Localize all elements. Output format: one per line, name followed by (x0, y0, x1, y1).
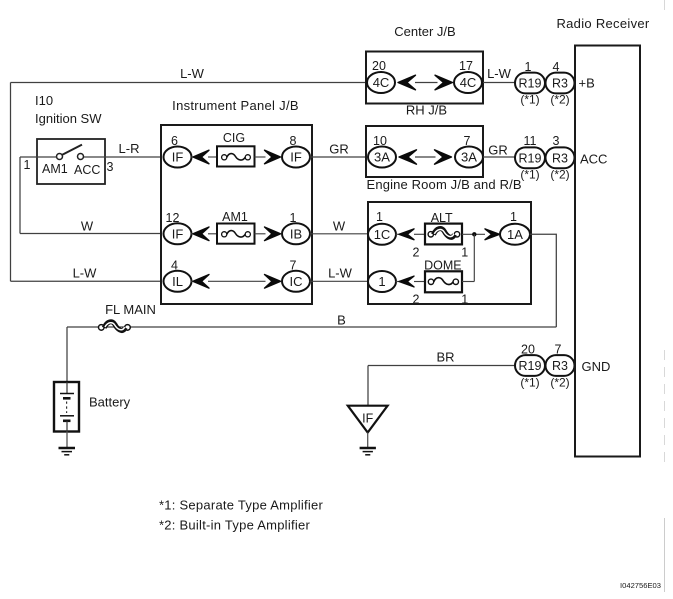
ground amplifier IF triangle (348, 406, 388, 433)
wire (414, 281, 425, 283)
junction node (472, 232, 476, 236)
svg-text:ACC: ACC (74, 163, 100, 177)
svg-text:IF: IF (172, 227, 184, 242)
wire W from IB to 1C (310, 233, 369, 235)
connector R3 +B (546, 73, 575, 94)
wire DOME to junction vertical (473, 234, 475, 281)
wire left vertical L-W (10, 83, 12, 282)
connector R3 GND (546, 355, 575, 376)
fuse AM1 (217, 224, 255, 244)
wire (255, 233, 266, 235)
connector R19 +B (515, 73, 545, 94)
svg-text:3: 3 (553, 134, 560, 148)
connector R3 ACC (546, 147, 575, 168)
svg-text:AM1: AM1 (222, 210, 248, 224)
svg-text:Instrument Panel J/B: Instrument Panel J/B (172, 98, 299, 113)
svg-text:1C: 1C (374, 227, 391, 242)
Center J/B box (366, 52, 483, 104)
wire (396, 281, 401, 283)
svg-text:W: W (333, 219, 346, 234)
wire (255, 156, 266, 158)
wire GR from IF8 to engine room box (310, 156, 367, 158)
ground battery (59, 448, 76, 455)
svg-text:1: 1 (378, 274, 385, 289)
connector IF (pin 12) (164, 223, 192, 244)
svg-text:I10: I10 (35, 93, 53, 108)
svg-text:2: 2 (413, 246, 420, 260)
svg-text:IL: IL (172, 274, 183, 289)
connector 3A left (368, 147, 396, 168)
wire (208, 280, 266, 282)
Radio Receiver box (575, 46, 640, 457)
arrow right row3 (265, 275, 281, 289)
svg-text:W: W (81, 219, 94, 234)
svg-text:*2: Built-in Type Amplifier: *2: Built-in Type Amplifier (159, 518, 310, 533)
battery (54, 382, 79, 432)
svg-text:(*1): (*1) (520, 168, 539, 182)
svg-text:Ignition SW: Ignition SW (35, 111, 102, 126)
fusible link FL MAIN (99, 322, 131, 331)
svg-text:L-R: L-R (119, 141, 140, 156)
arrow right ALT row (485, 229, 500, 240)
wire (414, 233, 425, 235)
svg-text:R19: R19 (519, 151, 542, 165)
wire (191, 233, 194, 235)
wire W vertical (19, 157, 21, 234)
connector IC (282, 271, 310, 292)
arrow left ER (399, 150, 417, 164)
wire L-W from IC to lower box (310, 280, 369, 282)
arrow left ALT row (399, 229, 414, 240)
wire ALT to junction (462, 233, 485, 235)
switch contacts and lever (57, 145, 84, 160)
svg-text:GR: GR (329, 142, 349, 157)
svg-text:(*2): (*2) (550, 376, 569, 390)
svg-text:FL MAIN: FL MAIN (105, 302, 156, 317)
svg-text:Engine Room J/B and R/B: Engine Room J/B and R/B (367, 177, 522, 192)
connector 4C right (454, 72, 482, 93)
arrow left row2 (193, 227, 209, 241)
svg-text:(*2): (*2) (550, 168, 569, 182)
wire (191, 156, 194, 158)
fusible link ALT (425, 224, 462, 245)
svg-text:IC: IC (290, 274, 303, 289)
svg-text:Battery: Battery (89, 395, 131, 410)
svg-text:(*1): (*1) (520, 376, 539, 390)
svg-text:I042756E03: I042756E03 (620, 581, 661, 590)
svg-text:Center J/B: Center J/B (394, 24, 455, 39)
fuse DOME (425, 271, 462, 292)
connector 1A (500, 224, 530, 245)
wire (415, 82, 438, 84)
wire W horizontal (20, 233, 164, 235)
connector R19 ACC (515, 147, 545, 168)
svg-text:1: 1 (24, 158, 31, 172)
wire 1A output (530, 234, 557, 327)
arrow left row1 (193, 150, 209, 164)
wire SW pin3 to IF6 (105, 156, 164, 158)
wire BR horizontal (368, 365, 516, 367)
svg-text:B: B (337, 313, 346, 328)
wire triangle to ground (367, 433, 369, 449)
svg-text:1A: 1A (507, 227, 523, 242)
svg-text:3: 3 (107, 160, 114, 174)
svg-text:1: 1 (461, 293, 468, 307)
wire top L-W horizontal (11, 82, 367, 84)
Engine Room J/B box (366, 126, 483, 177)
arrow right ER (435, 150, 452, 164)
connector 4C left (367, 72, 395, 93)
wire B horizontal (67, 326, 556, 328)
wire (208, 156, 217, 158)
wire battery to ground (66, 432, 68, 449)
svg-text:L-W: L-W (328, 266, 353, 281)
wire battery vertical (66, 327, 68, 382)
connector R19 GND (515, 355, 545, 376)
svg-text:DOME: DOME (424, 258, 462, 272)
wire (415, 156, 436, 158)
svg-text:R19: R19 (519, 77, 542, 91)
svg-text:AM1: AM1 (42, 162, 68, 176)
arrow right center JB (435, 75, 453, 90)
svg-text:ACC: ACC (580, 152, 607, 167)
wire BR vertical (367, 366, 369, 406)
arrow left center JB (398, 75, 416, 90)
svg-text:R19: R19 (519, 359, 542, 373)
svg-text:3A: 3A (374, 150, 390, 165)
ignition switch I10 box (37, 139, 105, 184)
svg-text:L-W: L-W (180, 66, 205, 81)
svg-text:RH J/B: RH J/B (406, 103, 447, 118)
scan artifact line right edge (664, 0, 666, 468)
svg-text:IF: IF (362, 411, 373, 425)
svg-text:R3: R3 (552, 77, 568, 91)
svg-text:Radio Receiver: Radio Receiver (556, 16, 649, 31)
svg-text:GND: GND (582, 359, 611, 374)
svg-text:*1: Separate Type Amplifier: *1: Separate Type Amplifier (159, 498, 323, 513)
svg-text:20: 20 (372, 59, 386, 73)
arrow right row2 (265, 227, 281, 241)
svg-text:CIG: CIG (223, 131, 245, 145)
arrow right row1 (265, 150, 281, 164)
wire (208, 233, 217, 235)
svg-text:+B: +B (579, 76, 595, 91)
svg-text:R3: R3 (552, 359, 568, 373)
svg-text:17: 17 (459, 59, 473, 73)
connector IF (pin 6) (164, 147, 192, 168)
connector 3A right (455, 147, 483, 168)
svg-text:GR: GR (488, 143, 508, 158)
connector 1 DOME row (368, 271, 396, 292)
lower J/B box (368, 202, 531, 304)
svg-text:(*1): (*1) (520, 93, 539, 107)
svg-text:11: 11 (524, 134, 537, 148)
wire (191, 280, 194, 282)
connector IL (164, 271, 192, 292)
wire (396, 233, 401, 235)
fuse CIG (217, 146, 255, 166)
svg-text:1: 1 (510, 210, 517, 224)
connector IB (282, 223, 310, 244)
svg-text:1: 1 (376, 210, 383, 224)
arrow left DOME row (399, 276, 414, 287)
svg-text:IF: IF (290, 150, 302, 165)
svg-text:IB: IB (290, 227, 302, 242)
connector IF (pin 8) (282, 147, 310, 168)
svg-text:4C: 4C (373, 75, 390, 90)
svg-text:1: 1 (461, 246, 468, 260)
arrow left row3 (193, 275, 209, 289)
wire SW pin1 stub (20, 156, 105, 158)
svg-text:3A: 3A (461, 150, 477, 165)
svg-text:BR: BR (436, 350, 454, 365)
svg-text:(*2): (*2) (550, 93, 569, 107)
wire DOME right (462, 281, 474, 283)
svg-text:IF: IF (172, 150, 184, 165)
connector 1C (368, 224, 396, 245)
svg-text:4C: 4C (460, 75, 477, 90)
ground IF (360, 448, 376, 455)
svg-text:R3: R3 (552, 151, 568, 165)
svg-text:L-W: L-W (73, 266, 98, 281)
svg-text:2: 2 (413, 293, 420, 307)
svg-text:L-W: L-W (487, 66, 512, 81)
wire 4C17 to R19 (483, 82, 516, 84)
wire L-W row3 horizontal (11, 280, 165, 282)
Instrument Panel J/B box (161, 125, 312, 304)
wire ER to R19 (483, 156, 516, 158)
